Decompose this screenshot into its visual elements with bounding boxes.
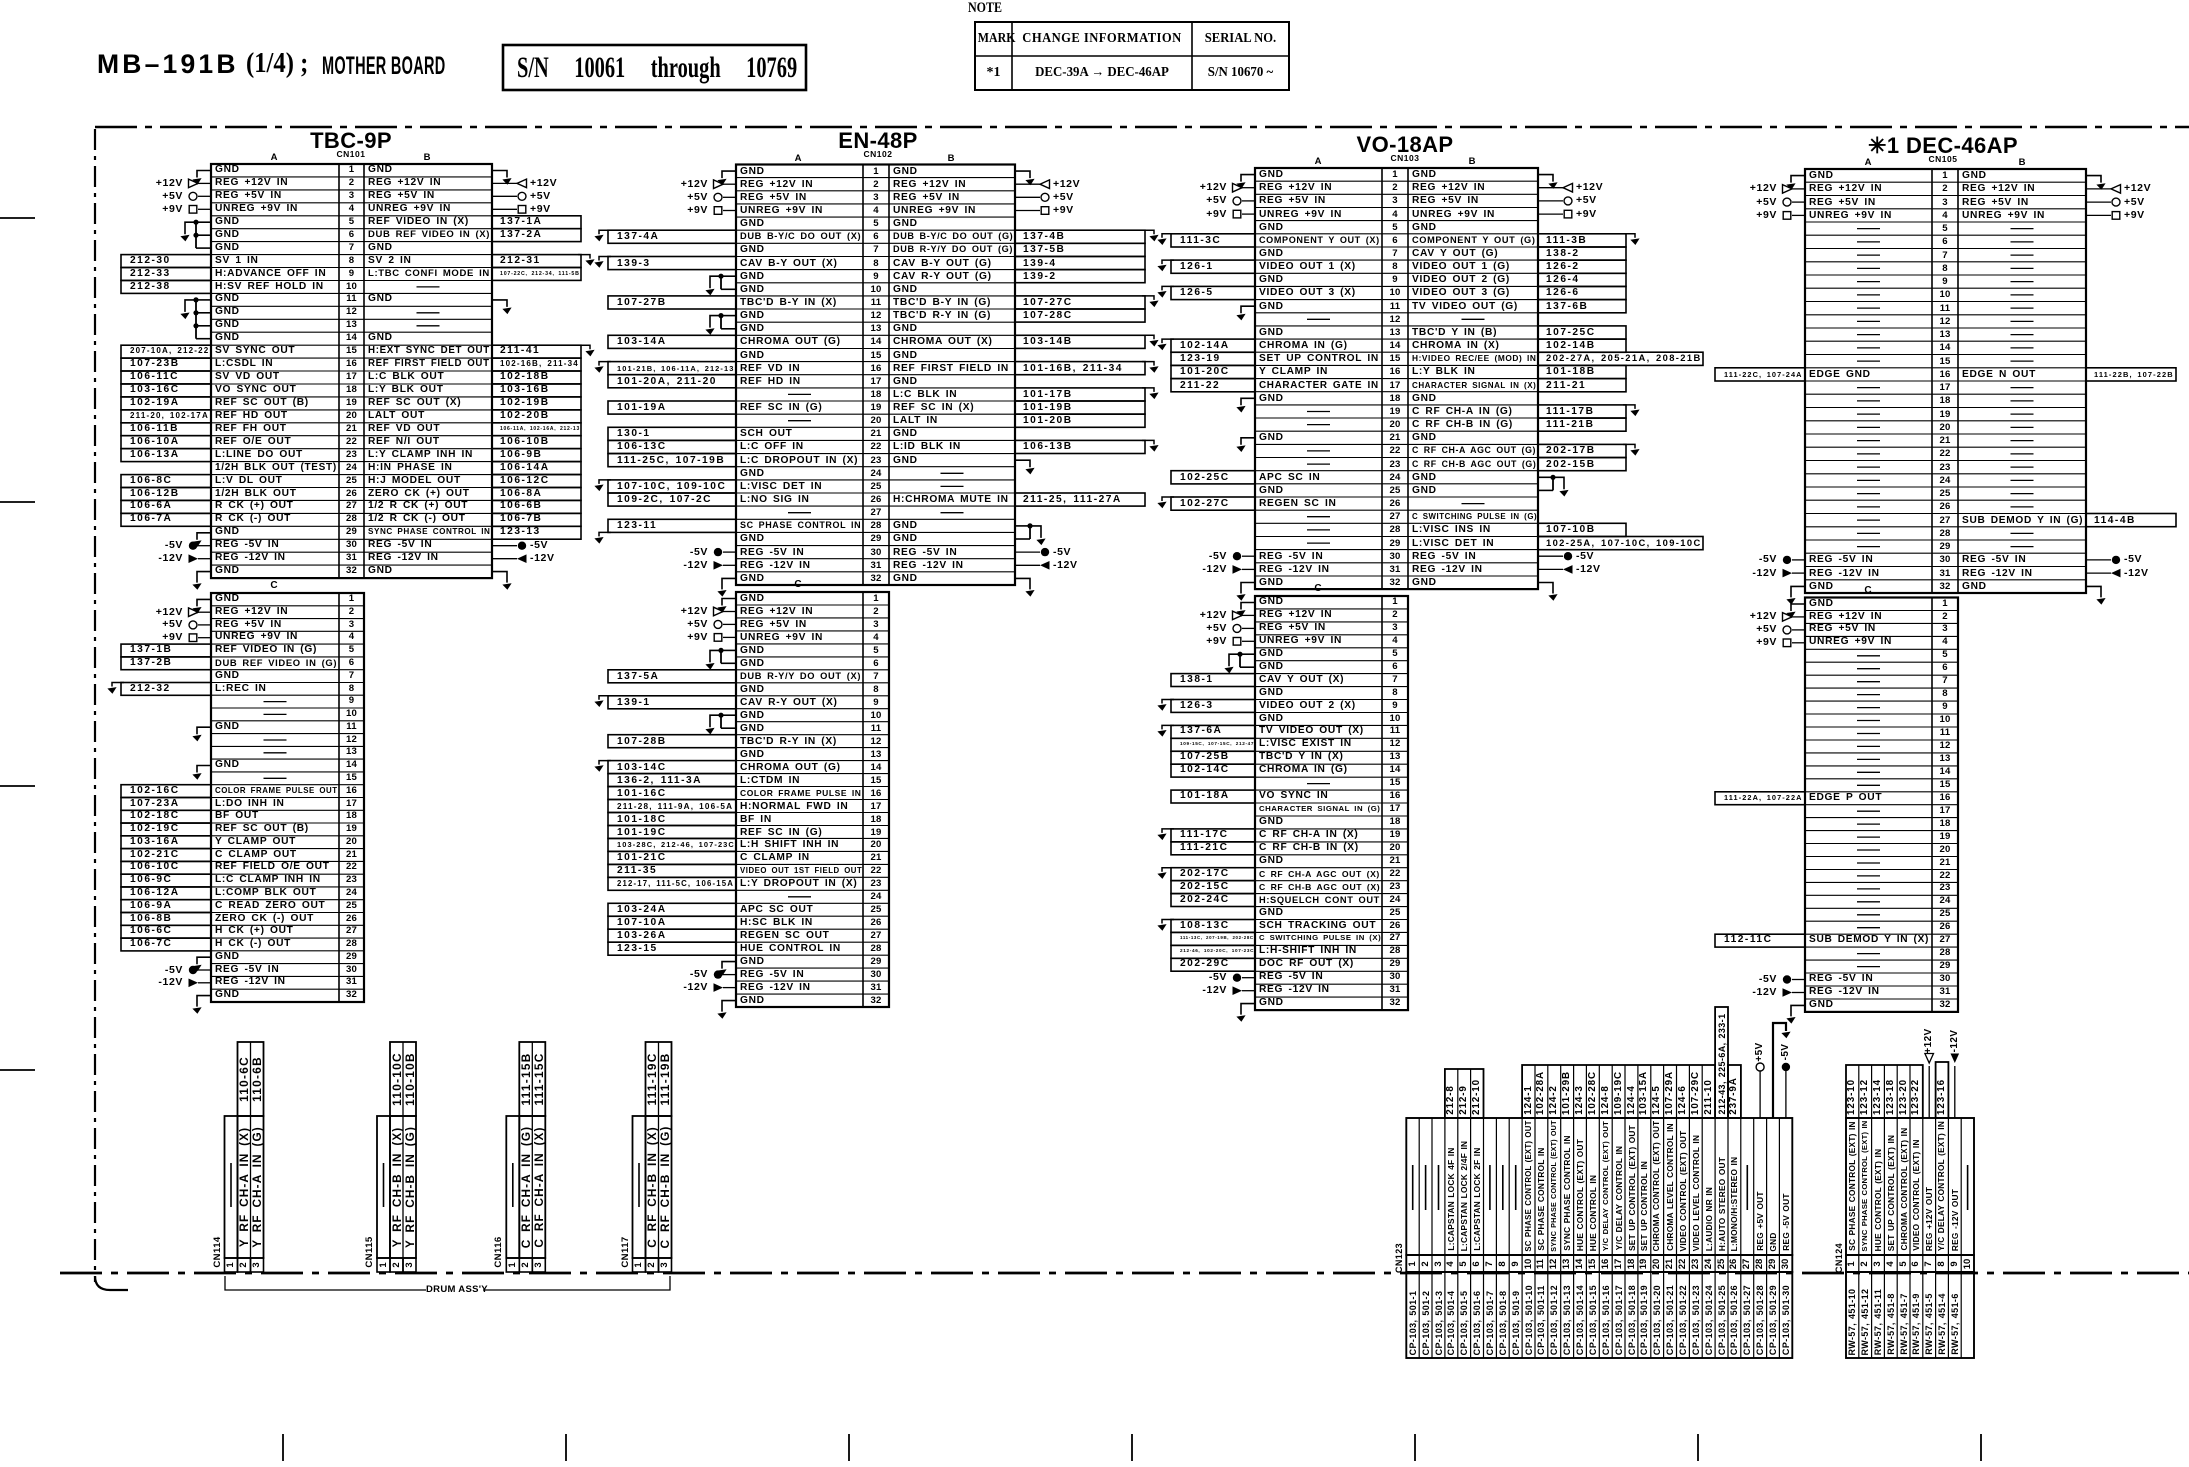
CN103 A/B table frame: [1255, 168, 1538, 589]
net 137-4B ref box: [1015, 230, 1145, 243]
net 106-13C ref box: [608, 440, 736, 453]
net 107-10A ref box: [608, 916, 736, 929]
net 102-14B ref box: [1538, 339, 1626, 352]
CN123 +5V / GND / -5V wires: [1759, 1071, 1761, 1118]
net 106-12A ref box: [121, 887, 211, 900]
net 202-17C ref box: [1171, 868, 1255, 881]
net 108-13C ref box: [1171, 920, 1255, 933]
power stub -12V pins A31/B31: [1233, 565, 1243, 574]
net 211-25, 111-27A ref box: [1015, 493, 1145, 506]
net 107-28C ref box: [1015, 309, 1145, 322]
net 102-18C ref box: [121, 810, 211, 823]
net 207-10A, 212-22 ref box: [121, 345, 211, 358]
net 106-7B ref box: [492, 513, 581, 526]
power stub +12V pins A2/B2: [189, 179, 199, 188]
registration ticks: [0, 217, 35, 219]
power stub +5V pin C3: [189, 621, 197, 629]
net 106-10C ref box: [121, 861, 211, 874]
CN102 A/B table frame: [736, 165, 1015, 586]
net 101-19B ref box: [1015, 401, 1145, 414]
CN102 ground wires: [722, 171, 736, 178]
net 101-17B ref box: [1015, 388, 1145, 401]
net 107-27C ref box: [1015, 296, 1145, 309]
net 111-25C, 107-19B ref box: [608, 454, 736, 467]
CN123 top ref boxes: [1445, 1069, 1484, 1118]
net 211-22 ref box: [1171, 379, 1255, 392]
CN103 ground wires: [1241, 175, 1255, 182]
power stub +12V pins A2/B2: [1783, 185, 1793, 194]
power stub +5V pins A3/B3: [189, 192, 197, 200]
net 202-15C ref box: [1171, 881, 1255, 894]
net 106-6C ref box: [121, 925, 211, 938]
net 101-18A ref box: [1171, 790, 1255, 803]
net 126-1 ref box: [1171, 260, 1255, 273]
net 126-4 ref box: [1538, 273, 1626, 286]
power stub +9V pin C4: [1783, 639, 1791, 647]
power stub -12V pin C31: [1233, 986, 1243, 995]
net 137-2B ref box: [121, 657, 211, 670]
net 111-17C ref box: [1171, 829, 1255, 842]
note table: [968, 0, 1032, 16]
net 102-27C ref box: [1171, 497, 1255, 510]
net 202-24C ref box: [1171, 894, 1255, 907]
net 107-27B ref box: [608, 296, 736, 309]
net 102-21C ref box: [121, 849, 211, 862]
net 139-1 ref box: [608, 696, 736, 709]
net 137-1B ref box: [121, 644, 211, 657]
net 107-22C, 212-34, 111-5B ref box: [492, 268, 581, 281]
net 103-14A ref box: [608, 335, 736, 348]
power stub +9V pin C4: [714, 634, 722, 642]
net 101-16B, 211-34 ref box: [1015, 362, 1145, 375]
net 202-15B ref box: [1538, 458, 1626, 471]
connector EN-48P CN102: [798, 130, 958, 151]
net 106-7A ref box: [121, 513, 211, 526]
net 101-20A, 211-20 ref box: [608, 375, 736, 388]
net 107-10C, 109-10C ref box: [608, 480, 736, 493]
net 112-11C ref box: [1715, 934, 1805, 947]
net 102-16B, 211-34 ref box: [492, 358, 581, 371]
net 139-2 ref box: [1015, 270, 1145, 283]
net 106-7C ref box: [121, 938, 211, 951]
net 137-1A ref box: [492, 216, 581, 229]
net 111-22C, 107-24A ref box: [1715, 368, 1805, 381]
power stub -5V pin C30: [714, 970, 722, 978]
power stub +5V pin C3: [1233, 624, 1241, 632]
net 137-4A ref box: [608, 230, 736, 243]
net 103-24A ref box: [608, 903, 736, 916]
power stub -12V pin C31: [714, 983, 724, 992]
net 106-11B ref box: [121, 423, 211, 436]
power stub -5V pin C30: [1233, 974, 1241, 982]
CN101 A/B table frame: [211, 164, 492, 578]
power stub -12V pins A31/B31: [714, 561, 724, 570]
net 103-14C ref box: [608, 761, 736, 774]
net 137-6B ref box: [1538, 300, 1626, 313]
net 139-3 ref box: [608, 257, 736, 270]
net 111-3B ref box: [1538, 234, 1626, 247]
net 107-28B ref box: [608, 735, 736, 748]
net 107-25C ref box: [1538, 326, 1626, 339]
CN102 C table: [783, 580, 813, 590]
net 102-14A ref box: [1171, 339, 1255, 352]
power stub +5V pin C3: [714, 620, 722, 628]
power stub +5V pins A3/B3: [1783, 198, 1791, 206]
net 102-19B ref box: [492, 397, 581, 410]
net 137-6A ref box: [1171, 725, 1255, 738]
connector TBC-9P CN101: [271, 130, 431, 151]
net 102-16C ref box: [121, 785, 211, 798]
board outline frame (dash-dot): [95, 126, 2189, 129]
net 106-8B ref box: [121, 913, 211, 926]
net 138-2 ref box: [1538, 247, 1626, 260]
power stub +12V pin C2: [1783, 613, 1793, 622]
net 126-3 ref box: [1171, 700, 1255, 713]
net 126-6 ref box: [1538, 286, 1626, 299]
power stub -12V pin C31: [1783, 988, 1793, 997]
DRUM ASS'Y bracket: [225, 1276, 426, 1290]
net 212-33 ref box: [121, 268, 211, 281]
net 123-13 ref box: [492, 526, 581, 539]
net 106-10B ref box: [492, 436, 581, 449]
power stub +9V pins A4/B4: [714, 207, 722, 215]
net 137-5B ref box: [1015, 243, 1145, 256]
net 202-29C ref box: [1171, 958, 1255, 971]
power stub -12V pins A31/B31: [189, 554, 199, 563]
net 102-19A ref box: [121, 397, 211, 410]
net 111-22A, 107-22A ref box: [1715, 792, 1805, 805]
net 101-21B, 106-11A, 212-13 ref box: [608, 362, 736, 375]
connector CN115: [362, 1152, 378, 1352]
net 106-11A, 102-16A, 212-13 ref box: [492, 423, 581, 436]
net 138-1 ref box: [1171, 674, 1255, 687]
net 107-23A ref box: [121, 798, 211, 811]
net 111-22B, 107-22B ref box: [2086, 368, 2176, 381]
net 137-2A ref box: [492, 229, 581, 242]
CN124 +12V / -12V wires: [1928, 1066, 1930, 1118]
power stub +9V pin C4: [1233, 638, 1241, 646]
net 103-28C, 212-46, 107-23C ref box: [608, 838, 736, 851]
net 111-3C ref box: [1171, 234, 1255, 247]
connector CN114: [210, 1152, 226, 1352]
net 114-4B ref box: [2086, 514, 2176, 527]
net 101-16C ref box: [608, 787, 736, 800]
power stub -12V pins A31/B31: [1783, 569, 1793, 578]
net 202-27A, 205-21A, 208-21B ref box: [1538, 352, 1703, 365]
power stub +12V pin C2: [714, 607, 724, 616]
net 103-26A ref box: [608, 929, 736, 942]
net 106-12C ref box: [492, 475, 581, 488]
net 102-20B ref box: [492, 410, 581, 423]
net 103-16A ref box: [121, 836, 211, 849]
net 103-16C ref box: [121, 384, 211, 397]
net 107-25B ref box: [1171, 751, 1255, 764]
net 137-5A ref box: [608, 670, 736, 683]
net 212-32 ref box: [121, 683, 211, 696]
net 109-2C, 107-2C ref box: [608, 493, 736, 506]
power stub +12V pins A2/B2: [1233, 183, 1243, 192]
power stub +9V pins A4/B4: [1233, 210, 1241, 218]
net 101-20B ref box: [1015, 414, 1145, 427]
net 106-10A ref box: [121, 436, 211, 449]
net 106-14A ref box: [492, 462, 581, 475]
CN105 ground wires: [1791, 176, 1805, 183]
net 106-6B ref box: [492, 500, 581, 513]
power stub +12V pin C2: [189, 608, 199, 617]
net 211-20, 102-17A ref box: [121, 410, 211, 423]
net 106-11C ref box: [121, 371, 211, 384]
power stub -5V pins A30/B30: [189, 542, 197, 550]
net 212-46, 102-20C, 107-23C ref box: [1171, 945, 1255, 958]
net 102-25C ref box: [1171, 471, 1255, 484]
net 123-19 ref box: [1171, 352, 1255, 365]
connector CN117: [618, 1152, 634, 1352]
net 126-5 ref box: [1171, 286, 1255, 299]
net 111-21C ref box: [1171, 842, 1255, 855]
net 106-9B ref box: [492, 449, 581, 462]
CN101 C table: [259, 581, 289, 591]
power stub -12V pin C31: [189, 979, 199, 988]
net 123-11 ref box: [608, 519, 736, 532]
net 106-9A ref box: [121, 900, 211, 913]
net 106-8C ref box: [121, 475, 211, 488]
serial number box: [517, 45, 789, 90]
net 101-18C ref box: [608, 813, 736, 826]
power stub +5V pin C3: [1783, 626, 1791, 634]
net 109-15C, 107-15C, 212-47 ref box: [1171, 738, 1255, 751]
power stub +9V pins A4/B4: [189, 206, 197, 214]
net 212-38 ref box: [121, 281, 211, 294]
net 212-30 ref box: [121, 255, 211, 268]
power stub -5V pins A30/B30: [714, 548, 722, 556]
net 111-21B ref box: [1538, 418, 1626, 431]
net 101-18B ref box: [1538, 365, 1626, 378]
net 102-19C ref box: [121, 823, 211, 836]
net 106-8A ref box: [492, 488, 581, 501]
net 102-14C ref box: [1171, 764, 1255, 777]
net 106-6A ref box: [121, 500, 211, 513]
net 101-20C ref box: [1171, 365, 1255, 378]
net 211-28, 111-9A, 106-5A ref box: [608, 800, 736, 813]
net 212-31 ref box: [492, 255, 581, 268]
net 111-13C, 207-19B, 202-28C ref box: [1171, 932, 1255, 945]
net 106-13A ref box: [121, 449, 211, 462]
net 126-2 ref box: [1538, 260, 1626, 273]
power stub +12V pins A2/B2: [714, 180, 724, 189]
net 101-21C ref box: [608, 851, 736, 864]
net 103-14B ref box: [1015, 335, 1145, 348]
net 107-23B ref box: [121, 358, 211, 371]
net 136-2, 111-3A ref box: [608, 774, 736, 787]
net 101-19A ref box: [608, 401, 736, 414]
CN105 C table: [1853, 586, 1883, 596]
connector CN124: [1831, 1158, 1847, 1358]
net 107-10B ref box: [1538, 523, 1626, 536]
power stub +5V pins A3/B3: [1233, 197, 1241, 205]
connector CN116: [491, 1152, 507, 1352]
net 212-17, 111-5C, 106-15A ref box: [608, 877, 736, 890]
power stub +9V pin C4: [189, 634, 197, 642]
net 102-25A, 107-10C, 109-10C ref box: [1538, 537, 1703, 550]
connector ✳1 DEC-46AP CN105: [1863, 135, 2023, 156]
power stub -5V pins A30/B30: [1783, 556, 1791, 564]
CN105 A/B table frame: [1805, 169, 2086, 593]
CN124 top ref boxes: [1846, 1065, 1923, 1118]
net 102-18B ref box: [492, 371, 581, 384]
net 202-17B ref box: [1538, 444, 1626, 457]
net 211-41 ref box: [492, 345, 581, 358]
connector VO-18AP CN103: [1325, 134, 1485, 155]
board title: [97, 49, 397, 79]
net 130-1 ref box: [608, 427, 736, 440]
power stub +9V pins A4/B4: [1783, 212, 1791, 220]
CN103 C table: [1303, 584, 1333, 594]
net 103-16B ref box: [492, 384, 581, 397]
net 211-35 ref box: [608, 864, 736, 877]
power stub -5V pin C30: [189, 966, 197, 974]
net 106-9C ref box: [121, 874, 211, 887]
power stub -5V pin C30: [1783, 975, 1791, 983]
net 139-4 ref box: [1015, 257, 1145, 270]
net 101-19C ref box: [608, 826, 736, 839]
net 211-21 ref box: [1538, 379, 1626, 392]
net 106-12B ref box: [121, 488, 211, 501]
power stub +12V pin C2: [1233, 611, 1243, 620]
net 106-13B ref box: [1015, 440, 1145, 453]
net 111-17B ref box: [1538, 405, 1626, 418]
connector CN123: [1391, 1158, 1407, 1358]
net 123-15 ref box: [608, 942, 736, 955]
power stub +5V pins A3/B3: [714, 193, 722, 201]
power stub -5V pins A30/B30: [1233, 552, 1241, 560]
CN101 ground wires: [197, 171, 211, 178]
